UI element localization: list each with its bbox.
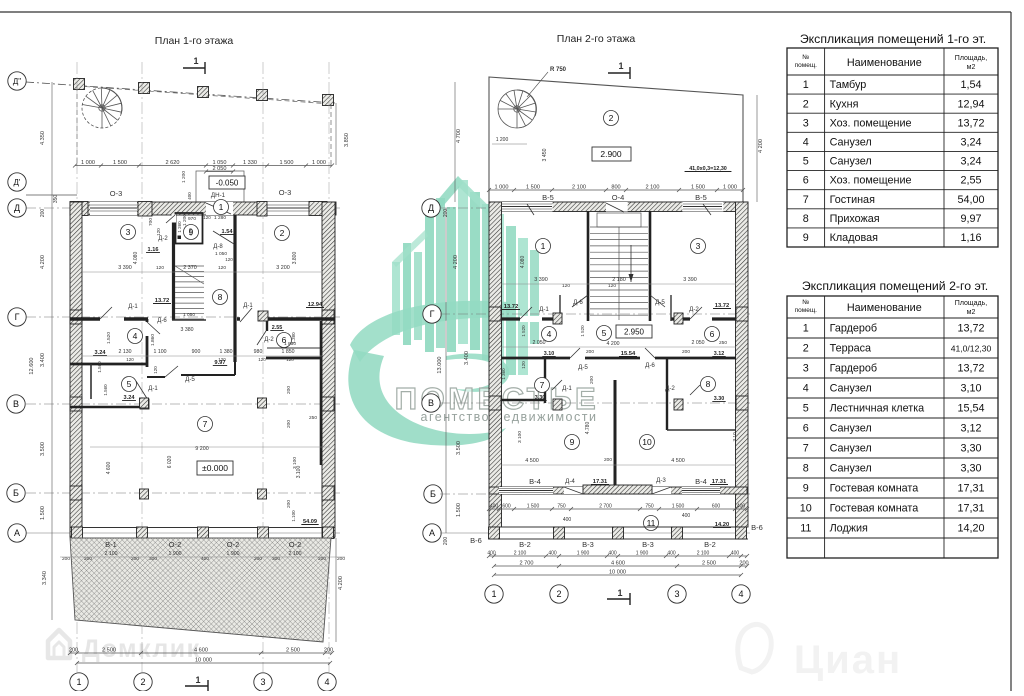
section mark 1 top [183, 67, 205, 69]
svg-text:Г: Г [15, 312, 20, 322]
svg-text:Д-2: Д-2 [158, 236, 168, 242]
bottom axis circles plan2 [485, 585, 503, 603]
door Д-2 leaf room9 [166, 215, 175, 223]
svg-text:350: 350 [53, 195, 59, 204]
svg-text:3,24: 3,24 [960, 156, 981, 168]
svg-text:3.850: 3.850 [344, 133, 350, 147]
svg-text:м2: м2 [967, 64, 976, 71]
sheet frame top line [0, 11, 1011, 13]
svg-text:3.340: 3.340 [42, 571, 48, 585]
svg-text:400: 400 [187, 192, 192, 200]
dim row loggia [489, 508, 747, 510]
svg-text:1: 1 [195, 675, 200, 685]
svg-text:Наименование: Наименование [847, 302, 922, 314]
svg-text:17,31: 17,31 [957, 483, 984, 495]
wall y364 room4|5 [70, 363, 147, 366]
svg-text:Д-1: Д-1 [562, 385, 572, 392]
svg-text:Санузел: Санузел [830, 423, 872, 435]
terrace right dashed edge [330, 104, 332, 165]
door Д-5 leaf [165, 366, 178, 377]
svg-text:900: 900 [192, 349, 201, 355]
svg-text:120: 120 [153, 366, 158, 374]
room 10 circle plan2 [640, 435, 655, 450]
svg-text:3.800: 3.800 [292, 252, 298, 265]
svg-text:ДН-1: ДН-1 [211, 192, 226, 199]
svg-text:1 360: 1 360 [501, 368, 506, 380]
svg-text:±0.000: ±0.000 [202, 463, 228, 473]
svg-text:120: 120 [258, 357, 266, 362]
svg-text:10 000: 10 000 [609, 570, 626, 576]
svg-text:Экспликация помещений 2-го эт.: Экспликация помещений 2-го эт. [802, 279, 988, 293]
svg-text:Д-4: Д-4 [565, 478, 575, 485]
svg-text:Б: Б [13, 488, 19, 498]
svg-text:200: 200 [286, 386, 292, 394]
svg-text:120: 120 [225, 257, 233, 262]
svg-text:В-4: В-4 [695, 477, 707, 486]
svg-text:В-6: В-6 [751, 523, 763, 532]
door Д-6 leaf [572, 295, 588, 307]
svg-text:3.10: 3.10 [732, 432, 738, 442]
door Д-5 leaf [650, 295, 665, 307]
svg-text:400: 400 [490, 504, 499, 510]
entrance door ДН-1 leaf [206, 203, 231, 214]
svg-text:2,55: 2,55 [960, 175, 981, 187]
svg-text:13,72: 13,72 [957, 363, 984, 375]
axis Д dash-dot line [26, 207, 340, 209]
svg-text:Площадь,: Площадь, [955, 300, 987, 307]
svg-text:4 200: 4 200 [758, 139, 764, 153]
top wall plan2 [489, 202, 748, 212]
svg-text:План 1-го этажа: План 1-го этажа [155, 35, 234, 47]
axis Д' leader line [26, 194, 77, 196]
room 11 circle plan2 [644, 516, 659, 531]
svg-text:1 500: 1 500 [691, 185, 705, 191]
axis line Д'' dash-dot slanted [26, 82, 335, 103]
svg-text:3 390: 3 390 [683, 277, 697, 283]
svg-text:1 520: 1 520 [580, 325, 585, 337]
section mark 1 top plan2 [608, 72, 630, 74]
svg-text:120: 120 [521, 361, 526, 369]
svg-text:200: 200 [589, 376, 595, 384]
room 6 circle plan2 [705, 327, 720, 342]
svg-text:1: 1 [76, 677, 81, 687]
svg-text:1 100: 1 100 [154, 349, 167, 355]
sheet frame right line [1010, 12, 1012, 691]
svg-text:4.200: 4.200 [338, 576, 344, 590]
svg-text:700: 700 [148, 218, 154, 226]
svg-text:980: 980 [254, 349, 263, 355]
interior columns room7 [140, 398, 149, 408]
svg-text:1 900: 1 900 [577, 551, 590, 557]
svg-text:О-2: О-2 [227, 540, 240, 549]
svg-text:400: 400 [563, 517, 572, 523]
svg-text:3 390: 3 390 [534, 277, 548, 283]
svg-text:Д": Д" [13, 77, 21, 86]
entrance porch [196, 171, 244, 202]
axis Г dash-dot line [26, 316, 340, 318]
svg-text:200: 200 [286, 500, 292, 508]
svg-text:4: 4 [803, 136, 809, 148]
svg-text:120: 120 [286, 357, 294, 362]
svg-text:1 500: 1 500 [526, 185, 540, 191]
svg-text:400: 400 [487, 551, 496, 557]
svg-text:3,12: 3,12 [960, 423, 981, 435]
hallway south wall y377 b [181, 374, 235, 376]
svg-text:В-6: В-6 [470, 536, 482, 545]
svg-text:4.780: 4.780 [585, 422, 591, 435]
svg-text:400: 400 [608, 551, 617, 557]
table 1 [787, 48, 998, 247]
svg-text:3: 3 [674, 589, 679, 599]
svg-text:41,0/12,30: 41,0/12,30 [951, 344, 992, 354]
svg-text:помещ.: помещ. [795, 62, 818, 69]
svg-text:12,94: 12,94 [957, 98, 984, 110]
svg-text:5: 5 [803, 156, 809, 168]
svg-text:1: 1 [617, 588, 622, 598]
right dim line vertical bottom [335, 538, 337, 642]
svg-text:Кладовая: Кладовая [830, 232, 879, 244]
svg-text:2.950: 2.950 [624, 328, 645, 337]
svg-text:3 390: 3 390 [118, 265, 132, 271]
svg-text:Лестничная клетка: Лестничная клетка [830, 403, 925, 415]
section mark 1 bottom plan2 [607, 598, 630, 600]
svg-text:Санузел: Санузел [830, 443, 872, 455]
svg-text:помещ.: помещ. [795, 307, 818, 314]
terrace boundary columns on Д line [74, 79, 85, 90]
svg-text:4: 4 [803, 383, 809, 395]
svg-text:2 620: 2 620 [166, 160, 180, 166]
svg-text:3,10: 3,10 [960, 383, 981, 395]
svg-text:2: 2 [803, 98, 809, 110]
svg-text:10: 10 [800, 503, 812, 515]
svg-text:8: 8 [706, 379, 711, 389]
svg-text:1 500: 1 500 [672, 504, 685, 510]
svg-text:4 200: 4 200 [607, 341, 620, 347]
svg-text:3.400: 3.400 [464, 351, 470, 365]
svg-text:4: 4 [547, 329, 552, 339]
svg-text:7: 7 [540, 380, 545, 390]
room 3 circle plan2 [691, 239, 706, 254]
svg-text:4 600: 4 600 [194, 648, 208, 654]
svg-text:1 330: 1 330 [243, 160, 257, 166]
svg-text:1: 1 [618, 61, 623, 71]
svg-text:3 100: 3 100 [517, 431, 523, 443]
svg-text:6: 6 [803, 175, 809, 187]
svg-text:1 850: 1 850 [282, 349, 295, 355]
dim row bottom plan2 c [494, 574, 741, 576]
top dim row plan1 [75, 165, 332, 167]
svg-text:12.600: 12.600 [29, 357, 35, 374]
svg-text:План 2-го этажа: План 2-го этажа [557, 33, 636, 45]
svg-text:Гостевая комната: Гостевая комната [830, 483, 919, 495]
table 2 [787, 296, 998, 558]
svg-text:1.560: 1.560 [97, 361, 102, 373]
svg-text:О-2: О-2 [169, 540, 182, 549]
svg-text:400: 400 [731, 551, 740, 557]
svg-text:В-1: В-1 [105, 540, 117, 549]
vertical axis dash lines [76, 62, 78, 672]
door Д-8 leaf [213, 231, 234, 244]
Домклик watermark [48, 630, 70, 658]
svg-text:В-4: В-4 [529, 477, 541, 486]
wall x147 lower [146, 336, 149, 367]
level mark 2.900 [592, 147, 631, 161]
svg-text:Д-3: Д-3 [656, 477, 666, 484]
svg-text:1 000: 1 000 [81, 160, 95, 166]
axis Б dash line plan2 [440, 493, 750, 495]
svg-text:13,72: 13,72 [957, 323, 984, 335]
svg-text:4 600: 4 600 [611, 561, 625, 567]
svg-text:9: 9 [803, 232, 809, 244]
right exterior wall plan2 [736, 202, 749, 527]
svg-text:Д-8: Д-8 [213, 244, 223, 250]
svg-text:8: 8 [218, 292, 223, 302]
svg-text:3: 3 [696, 241, 701, 251]
svg-text:2 100: 2 100 [697, 551, 710, 557]
svg-text:Площадь,: Площадь, [955, 55, 987, 62]
axis Г dash line plan2 [440, 313, 750, 315]
wall y317 plan2 [501, 317, 560, 320]
svg-text:1,54: 1,54 [960, 79, 981, 91]
svg-text:3,30: 3,30 [960, 463, 981, 475]
svg-text:Д-6: Д-6 [645, 362, 655, 369]
svg-text:400: 400 [548, 551, 557, 557]
svg-text:Д-2: Д-2 [689, 306, 699, 313]
svg-text:Гостевая комната: Гостевая комната [830, 503, 919, 515]
axis В dash-dot line [26, 403, 340, 405]
room 9 circle plan2 [565, 435, 580, 450]
svg-text:5: 5 [803, 403, 809, 415]
svg-text:2 100: 2 100 [514, 551, 527, 557]
svg-text:400: 400 [737, 504, 746, 510]
svg-text:2 050: 2 050 [213, 166, 227, 172]
wall y358 plan2 [501, 357, 570, 360]
svg-text:120: 120 [156, 228, 161, 236]
door Д-1 leaf room5 [136, 381, 148, 400]
svg-text:3: 3 [803, 363, 809, 375]
svg-text:2 180: 2 180 [612, 277, 626, 283]
svg-text:250: 250 [309, 415, 317, 421]
svg-text:750: 750 [557, 504, 566, 510]
left dim line vertical [51, 82, 53, 533]
svg-text:6: 6 [803, 423, 809, 435]
svg-text:-0.050: -0.050 [216, 179, 239, 188]
svg-text:200: 200 [682, 349, 690, 355]
terrace outline plan2 [489, 77, 743, 202]
svg-text:О-2: О-2 [289, 540, 302, 549]
svg-text:1.860: 1.860 [150, 334, 156, 346]
terrace boundary dashed upper [77, 86, 331, 104]
svg-text:Санузел: Санузел [830, 156, 872, 168]
room 5 circle plan2 [597, 326, 612, 341]
room 9 closet box [176, 213, 203, 244]
svg-text:1 000: 1 000 [312, 160, 326, 166]
door Д-2 leaf plan2 [690, 307, 702, 319]
svg-text:200: 200 [586, 349, 594, 355]
level mark 2.950 [616, 325, 652, 338]
watermark swoosh upper band [350, 301, 510, 362]
door Д-1 leaf left [100, 307, 112, 319]
svg-text:1 900: 1 900 [169, 551, 182, 557]
spiral staircase 1st floor [82, 88, 122, 128]
door Д-2 leaf room6 [257, 331, 266, 345]
svg-text:750: 750 [645, 504, 654, 510]
bottom colonnade [70, 527, 335, 529]
svg-text:8: 8 [803, 213, 809, 225]
room 1 circle plan2 [536, 239, 551, 254]
svg-text:2 700: 2 700 [520, 561, 534, 567]
svg-text:Домклик: Домклик [82, 635, 201, 663]
svg-text:3.500: 3.500 [40, 442, 46, 456]
svg-text:2 500: 2 500 [102, 648, 116, 654]
svg-text:1 000: 1 000 [723, 185, 737, 191]
svg-text:Д-1: Д-1 [148, 386, 158, 392]
room 4 circle plan2 [542, 327, 557, 342]
svg-text:120: 120 [218, 265, 226, 271]
Циан icon blob [738, 624, 771, 672]
svg-text:3,30: 3,30 [960, 443, 981, 455]
svg-text:200: 200 [443, 537, 449, 546]
svg-text:4 500: 4 500 [525, 458, 539, 464]
svg-text:4 600: 4 600 [106, 462, 112, 475]
svg-text:3 380: 3 380 [181, 327, 194, 333]
top wall column blocks [70, 202, 88, 216]
svg-text:4.080: 4.080 [133, 252, 139, 265]
wall y317 right section [237, 317, 335, 320]
svg-text:Санузел: Санузел [830, 463, 872, 475]
svg-text:2 100: 2 100 [646, 185, 660, 191]
svg-text:1 050: 1 050 [183, 312, 195, 318]
svg-text:970: 970 [188, 216, 196, 222]
svg-text:200: 200 [69, 648, 78, 654]
hatched terrace area plan1 [70, 538, 331, 642]
svg-text:Циан: Циан [794, 638, 902, 682]
svg-text:200: 200 [324, 648, 333, 654]
closet wall x91 room5 [90, 364, 92, 399]
svg-text:Санузел: Санузел [830, 383, 872, 395]
svg-text:4 700: 4 700 [456, 129, 462, 143]
svg-text:В: В [428, 398, 434, 408]
svg-text:200: 200 [604, 457, 612, 463]
svg-text:200: 200 [739, 561, 748, 567]
svg-text:Тамбур: Тамбур [830, 79, 867, 91]
svg-text:1 280: 1 280 [214, 215, 226, 221]
svg-text:Д-1: Д-1 [539, 306, 549, 313]
window О-3 left lines [90, 207, 137, 209]
svg-text:3 100: 3 100 [292, 457, 298, 469]
watermark swoosh inner hook [446, 353, 509, 391]
svg-text:7: 7 [203, 419, 208, 429]
svg-text:250: 250 [719, 340, 727, 346]
hallway south wall y377 a [147, 376, 165, 378]
level mark 0.000 [197, 461, 233, 475]
svg-text:400: 400 [682, 513, 691, 519]
arrow stairs [630, 245, 632, 282]
svg-text:2: 2 [803, 343, 809, 355]
svg-text:В-2: В-2 [704, 540, 716, 549]
svg-text:1 900: 1 900 [227, 551, 240, 557]
svg-text:2 500: 2 500 [702, 561, 716, 567]
svg-text:Экспликация помещений 1-го эт.: Экспликация помещений 1-го эт. [800, 32, 986, 46]
svg-text:4.200: 4.200 [40, 255, 46, 269]
svg-text:120: 120 [203, 215, 211, 220]
svg-text:1: 1 [193, 56, 198, 66]
door Д-1 leaf right [240, 308, 252, 322]
svg-text:3 200: 3 200 [276, 265, 290, 271]
wall x174 room3|stair [172, 215, 175, 320]
svg-text:4: 4 [324, 677, 329, 687]
svg-text:6 020: 6 020 [167, 456, 173, 469]
wall window columns [70, 310, 82, 324]
svg-text:4: 4 [133, 331, 138, 341]
room 2 circle [604, 111, 619, 126]
svg-text:В-5: В-5 [542, 193, 554, 202]
svg-text:агентство недвижимости: агентство недвижимости [421, 410, 598, 424]
svg-text:1,16: 1,16 [960, 232, 981, 244]
inner shaft wall x321 [320, 321, 323, 465]
axis circles plan2 left [422, 199, 440, 217]
door post Д-1 right [258, 311, 268, 321]
svg-text:1: 1 [219, 202, 224, 212]
svg-text:Санузел: Санузел [830, 136, 872, 148]
svg-text:Кухня: Кухня [830, 98, 859, 110]
svg-text:Д: Д [428, 203, 434, 213]
left exterior wall [70, 202, 82, 537]
svg-text:11: 11 [800, 523, 811, 535]
door В-5 leaf left [527, 204, 534, 215]
svg-text:№: № [802, 54, 809, 61]
svg-text:1 000: 1 000 [495, 185, 509, 191]
svg-text:3: 3 [126, 227, 131, 237]
svg-text:О-3: О-3 [279, 188, 292, 197]
section mark 1 bottom plan1 [185, 685, 208, 687]
right dim vertical plan2 [756, 95, 758, 202]
svg-text:В-3: В-3 [642, 540, 654, 549]
svg-text:1 200: 1 200 [181, 171, 187, 183]
svg-text:400: 400 [188, 228, 193, 236]
svg-text:Прихожая: Прихожая [830, 213, 880, 225]
svg-text:В: В [13, 399, 19, 409]
small column dot room9 [178, 236, 182, 240]
svg-text:1 500: 1 500 [527, 504, 540, 510]
svg-text:1.560: 1.560 [103, 384, 108, 396]
dim 2050 porch [206, 171, 233, 173]
axis А line plan2 [440, 532, 750, 534]
svg-text:Наименование: Наименование [847, 57, 922, 69]
svg-text:1 900: 1 900 [636, 551, 649, 557]
svg-text:2: 2 [140, 677, 145, 687]
door post room5 [140, 399, 149, 409]
svg-text:4 200: 4 200 [453, 255, 459, 269]
svg-text:1 520: 1 520 [521, 325, 526, 337]
svg-text:2 130: 2 130 [119, 349, 132, 355]
svg-text:1.500: 1.500 [40, 506, 46, 520]
svg-text:Гардероб: Гардероб [830, 323, 878, 335]
svg-text:2 050: 2 050 [692, 340, 705, 346]
dim row bottom plan1 [70, 652, 332, 654]
svg-text:О-4: О-4 [612, 193, 625, 202]
svg-text:3.500: 3.500 [456, 441, 462, 455]
watermark building bars [392, 262, 400, 335]
svg-text:1: 1 [803, 323, 809, 335]
room 8 circle plan2 [701, 377, 716, 392]
svg-text:200: 200 [286, 420, 292, 428]
svg-text:5: 5 [602, 328, 607, 338]
svg-text:800: 800 [611, 185, 620, 191]
svg-text:Д-2: Д-2 [264, 337, 274, 343]
svg-text:10: 10 [642, 437, 652, 447]
level mark -0.050 [209, 176, 245, 189]
